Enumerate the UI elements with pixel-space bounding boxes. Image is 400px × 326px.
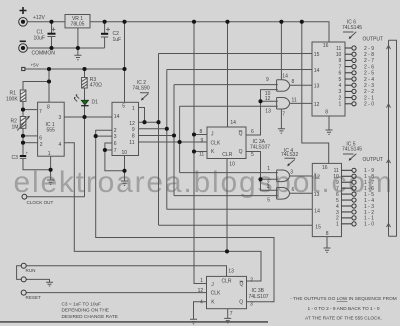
svg-text:CLK: CLK (211, 141, 221, 147)
wire RESET line to IC3b CLK pin12 (26, 292, 206, 294)
junction C2 on +5V rail (103, 20, 107, 24)
IC1 555 box (38, 102, 65, 156)
svg-text:1uF: 1uF (113, 37, 122, 43)
regulator VR1 box (65, 15, 90, 28)
svg-text:555: 555 (47, 128, 56, 134)
svg-text:RUN: RUN (26, 268, 36, 273)
wire gate4 output to IC5 pin13 (290, 192, 313, 194)
svg-text:8: 8 (200, 129, 203, 135)
svg-text:2: 2 (250, 277, 253, 283)
wire RUN ground stub line (26, 279, 49, 282)
junction bus A at IC2 pin12 (156, 120, 160, 124)
svg-text:CLR: CLR (222, 278, 232, 284)
svg-text:6: 6 (292, 187, 295, 193)
wire VR1 ground stub (77, 28, 79, 55)
svg-text:16: 16 (323, 43, 329, 49)
connector COMMON center pin (21, 46, 25, 50)
svg-text:2 - 7: 2 - 7 (364, 58, 374, 64)
wire IC3a Q net to gate3 input2 and gate4 input4 (246, 152, 278, 191)
svg-text:13: 13 (265, 109, 271, 115)
svg-text:Q: Q (239, 299, 243, 305)
svg-text:1: 1 (200, 278, 203, 284)
svg-text:8: 8 (132, 134, 135, 140)
svg-text:15: 15 (315, 224, 321, 230)
svg-text:16: 16 (322, 165, 328, 171)
svg-text:2 - 0: 2 - 0 (364, 102, 374, 108)
junction R1 R2 555 pin7 (21, 108, 25, 112)
svg-text:+12V: +12V (33, 15, 45, 21)
wire IC3a J stub (194, 134, 207, 136)
junction bus D at IC2 pin11 (178, 140, 182, 144)
svg-text:DESIRED CHANGE RATE: DESIRED CHANGE RATE (62, 314, 118, 320)
svg-text:8: 8 (325, 110, 328, 116)
svg-text:C3: C3 (12, 155, 19, 161)
junction IC3a K tie (192, 149, 196, 153)
sequence arrowhead at 2-0 (387, 104, 391, 108)
wire R1 top branch (23, 82, 49, 91)
svg-text:14: 14 (314, 68, 320, 74)
svg-text:12: 12 (314, 102, 320, 108)
svg-text:5: 5 (122, 103, 125, 109)
terminal RUN (21, 263, 26, 268)
svg-text:13: 13 (314, 84, 320, 90)
svg-text:100K: 100K (6, 97, 18, 103)
svg-text:12: 12 (314, 175, 320, 181)
junction IC2 pins6-7 (103, 148, 107, 152)
svg-text:9: 9 (266, 77, 269, 83)
svg-text:74LS145: 74LS145 (342, 25, 362, 31)
wire IC6 gnd stub (328, 116, 330, 130)
or-gate IC4c pins 1,2,3 (277, 170, 290, 182)
svg-text:- THE OUTPUTS GO LOW IN SEQUEN: - THE OUTPUTS GO LOW IN SEQUENCE FROM (290, 296, 397, 302)
label IC5 outputs (364, 168, 374, 228)
ground below IC6 (326, 130, 333, 134)
svg-text:7: 7 (282, 112, 285, 118)
svg-text:2 - 9: 2 - 9 (364, 46, 374, 52)
ground below IC2 (121, 181, 128, 185)
junction IC2 pins2-3 (94, 134, 98, 138)
wire 555 pin4 to CLR net (65, 143, 262, 281)
wire IC2 pin11 row to IC3a CLK (139, 141, 208, 143)
svg-text:1: 1 (132, 106, 135, 112)
svg-text:78L05: 78L05 (71, 22, 85, 28)
svg-text:OUTPUT: OUTPUT (363, 37, 384, 43)
connector +12V center pin (21, 20, 25, 24)
wire bus A to IC6 pin15 (159, 53, 313, 55)
wire bus D vertical (179, 106, 181, 172)
svg-text:2: 2 (339, 95, 342, 101)
svg-text:7: 7 (114, 148, 117, 154)
wire gate2 output to IC6 pin12 (290, 102, 312, 104)
wire C3 bottom to 555 pin1 node (23, 159, 51, 170)
svg-text:Q: Q (239, 131, 243, 137)
LED D1 (74, 94, 89, 106)
svg-text:3: 3 (114, 134, 117, 140)
ground below VR1 (74, 55, 81, 59)
svg-text:6: 6 (251, 129, 254, 135)
junction LED clock node (82, 115, 86, 119)
capacitor C2 (101, 33, 108, 35)
svg-text:11: 11 (129, 140, 134, 146)
wire bus B to IC5 pin14 (167, 208, 312, 210)
label IC6 outputs (364, 46, 374, 108)
svg-text:2 - 4: 2 - 4 (364, 77, 374, 83)
wire 555 pin1 ground stub (50, 156, 52, 180)
junction IC2 pin1 pin12 (142, 120, 146, 124)
wire IC3a pin10 CLR stub down (226, 159, 228, 252)
svg-text:2 - 8: 2 - 8 (364, 52, 374, 58)
or-gate IC4b pins 12,13,11 (277, 98, 290, 110)
wire IC4 vcc pin14 stub (280, 22, 282, 80)
svg-text:1: 1 (48, 151, 51, 157)
wire bus B vertical (166, 70, 168, 210)
capacitor C3 (20, 155, 26, 157)
capacitor C1 (48, 33, 56, 35)
wire +5V feeder to IC3a pin14 (227, 22, 229, 127)
svg-text:5: 5 (251, 152, 254, 158)
svg-text:CLR: CLR (222, 152, 232, 158)
IC3a 74LS107 box (207, 127, 246, 159)
wire +12V rail from connector to VR1 (28, 21, 66, 23)
svg-text:470Ω: 470Ω (90, 83, 102, 89)
wire +5V terminal rail (25, 68, 125, 70)
svg-text:12: 12 (129, 121, 135, 127)
wire IC2 pin7 to ground node (105, 150, 125, 171)
IC2 label leader arrow (140, 93, 149, 99)
svg-text:13: 13 (228, 269, 234, 275)
ground at RUN switch (46, 282, 53, 286)
junction 555 pin2 node (21, 141, 25, 145)
svg-text:+5V: +5V (31, 63, 40, 68)
junction gate3 input2 node (258, 177, 262, 181)
junction bus B at IC2 pin9 (165, 127, 169, 131)
svg-text:7: 7 (39, 109, 42, 115)
svg-text:4: 4 (267, 185, 270, 191)
overline IC3b Qbar (240, 280, 244, 282)
junction IC4 vcc on +5V rail (279, 20, 283, 24)
or-gate IC4a pins 9,10,8 (277, 80, 290, 92)
junction C1 on ground rail (49, 46, 53, 50)
wire IC2 pin2 jog (96, 130, 112, 136)
wire clock out line (27, 196, 85, 198)
wire right sequence return line (389, 40, 397, 236)
ground below IC5 (324, 248, 331, 252)
svg-text:5: 5 (339, 77, 342, 83)
svg-text:Q: Q (239, 149, 243, 155)
wire bus D to gate3 input1 (180, 172, 278, 174)
svg-text:74LS107: 74LS107 (249, 294, 269, 300)
connector +12V (19, 18, 28, 27)
wire IC2 pin1 jog (139, 108, 145, 123)
sequence arrowhead at 1-9 (387, 160, 391, 164)
wire IC3b K to ground (194, 302, 207, 320)
svg-text:DEPENDING ON THE: DEPENDING ON THE (62, 308, 109, 314)
minus symbol of COMMON terminal (20, 40, 26, 42)
wire gate1 output to IC6 pin13 (290, 84, 312, 86)
junction C1 on +12V rail (49, 20, 53, 24)
wire IC3a K stub (194, 151, 207, 153)
svg-text:10: 10 (122, 150, 128, 156)
wire bus C to gate1 input9 (174, 84, 278, 86)
junction IC5 vcc on +5V rail (300, 20, 304, 24)
svg-text:10: 10 (229, 162, 235, 168)
wire R1 to R2 chain left column (22, 101, 24, 116)
connector COMMON (19, 44, 28, 53)
svg-text:15: 15 (314, 52, 320, 58)
svg-text:9: 9 (201, 138, 204, 144)
ground below IC1 555 (47, 180, 54, 184)
svg-text:3: 3 (290, 170, 293, 176)
svg-text:2: 2 (40, 142, 43, 148)
svg-text:14: 14 (282, 73, 288, 79)
svg-text:CLOCK OUT: CLOCK OUT (27, 200, 54, 205)
wire RUN switch bracket (17, 266, 22, 280)
overline IC3a Qbar (239, 130, 243, 132)
wire RUN line to IC3b CLR pin13 (26, 266, 226, 277)
wire R1 and 555 pin8 feeder (48, 69, 50, 102)
junction VR1 gnd on ground rail (76, 46, 80, 50)
junction gate2 input12 node (258, 99, 262, 103)
wire R2 bottom to C3 (22, 128, 24, 155)
svg-text:2 - 1: 2 - 1 (364, 95, 374, 101)
svg-text:11: 11 (292, 98, 297, 104)
junction C3 at 555 pin1 (49, 168, 53, 172)
svg-text:8: 8 (47, 105, 50, 111)
IC5 output pin circles (342, 168, 357, 226)
junction R1 branch node (47, 79, 51, 83)
wire IC3b pin7 gnd stub (227, 309, 229, 319)
svg-text:+: + (26, 151, 29, 156)
IC5 74LS145 box (312, 163, 341, 236)
junction IC2 pin10 ground node (122, 169, 126, 173)
svg-text:COMMON: COMMON (32, 51, 56, 57)
svg-text:RESET: RESET (26, 295, 42, 300)
svg-text:11: 11 (199, 151, 204, 157)
svg-text:4: 4 (339, 83, 342, 89)
junction CLR net node (225, 249, 229, 253)
svg-text:13: 13 (314, 192, 320, 198)
plus symbol of +12V terminal (20, 7, 27, 14)
svg-text:7: 7 (339, 64, 342, 70)
wire IC4 gnd pin7 stub (280, 109, 282, 128)
svg-text:12: 12 (265, 96, 271, 102)
svg-text:AT THE RATE OF THE 555 CLOCK.: AT THE RATE OF THE 555 CLOCK. (305, 315, 382, 321)
junction R3 on +5V terminal rail (82, 67, 86, 71)
svg-text:74LS145: 74LS145 (342, 147, 362, 153)
ground IC4 pin7 (278, 129, 285, 133)
wire bus A vertical (158, 54, 160, 226)
svg-text:1: 1 (339, 102, 342, 108)
svg-text:2 - 3: 2 - 3 (364, 83, 374, 89)
ground IC3b K pin4 (190, 319, 197, 323)
wire IC2 pin9 output row (139, 128, 167, 130)
wire C2 top stub (104, 22, 106, 34)
junction IC2 pin5 feeder (122, 67, 126, 71)
IC4 label leader arrow (285, 158, 296, 165)
wire bus C to gate4 input5 (174, 195, 278, 197)
IC5 label leader arrow (343, 154, 356, 160)
svg-text:9: 9 (132, 127, 135, 133)
svg-text:8: 8 (292, 79, 295, 85)
svg-text:14: 14 (230, 120, 236, 126)
svg-text:3: 3 (250, 302, 253, 308)
wire +5V feeder to IC2 pin5 (124, 22, 126, 103)
resistor R1 (20, 90, 26, 101)
svg-text:8: 8 (326, 231, 329, 237)
junction R1 feeder on +5V terminal rail (47, 67, 51, 71)
svg-text:74LS107: 74LS107 (250, 145, 270, 151)
wire C1 top stub (51, 22, 53, 33)
svg-text:1: 1 (267, 166, 270, 172)
terminal CLOCK OUT (22, 194, 27, 199)
svg-text:6: 6 (339, 71, 342, 77)
wire IC2 pin12 output row (139, 121, 159, 123)
wire COMMON ground rail (28, 47, 105, 49)
svg-text:2 - 2: 2 - 2 (364, 89, 374, 95)
IC6 output pin circles (345, 46, 356, 106)
svg-text:1 - 0: 1 - 0 (364, 222, 374, 228)
IC2 74LS90 box (112, 102, 139, 155)
wire 555 pin3 output to IC2 pin14 (65, 116, 113, 118)
wire C1 bottom stub (51, 37, 53, 48)
svg-text:4: 4 (200, 300, 203, 306)
label IC6 right pins (336, 46, 342, 108)
svg-text:7: 7 (230, 311, 233, 317)
wire bus C vertical (173, 85, 175, 196)
svg-text:D1: D1 (92, 100, 99, 106)
or-gate IC4d pins 4,5,6 (277, 188, 290, 200)
svg-text:1: 1 (336, 222, 339, 228)
sequence arrowhead at 1-0 (387, 224, 391, 228)
junction IC3a J tie (192, 132, 196, 136)
sequence arrowhead at 2-9 (387, 46, 391, 50)
junction IC2 feeder on +5V rail (122, 20, 126, 24)
wire IC3a Qbar net to gate1 input10 and gate2 input12 (246, 90, 278, 135)
svg-text:OUTPUT: OUTPUT (363, 157, 384, 163)
svg-text:2 - 5: 2 - 5 (364, 71, 374, 77)
svg-text:74LS90: 74LS90 (132, 85, 149, 91)
svg-text:2 - 6: 2 - 6 (364, 64, 374, 70)
wire bus B to IC6 pin14 (167, 69, 312, 71)
svg-text:9: 9 (339, 58, 342, 64)
wire bus D to gate2 input13 (180, 105, 278, 107)
junction JK feeder on +5V rail (192, 20, 196, 24)
wire 555 pin6 line (23, 135, 38, 137)
wire +5V rail from VR1 output to IC6 pin16 (90, 22, 329, 42)
svg-text:C3 = 1uF TO 10uF: C3 = 1uF TO 10uF (62, 301, 102, 307)
svg-text:3: 3 (339, 89, 342, 95)
svg-text:Q: Q (240, 282, 244, 288)
wire IC2 pin8 output row (139, 135, 175, 137)
svg-text:6: 6 (39, 135, 42, 141)
+5V output terminal square (22, 67, 25, 70)
wire LED cathode down to clock node (84, 106, 86, 197)
wire IC5 gnd stub (326, 237, 328, 248)
svg-text:4: 4 (59, 142, 62, 148)
wire right sequence arrow line left (388, 40, 390, 236)
svg-text:3: 3 (59, 115, 62, 121)
label IC5 right pins (333, 168, 339, 228)
wire IC2 pin6 jog (105, 143, 112, 150)
wire 555 pin2 line (23, 142, 38, 144)
svg-text:1M: 1M (12, 125, 19, 131)
junction bus C at IC2 pin8 (172, 133, 176, 137)
junction 555 pin6 node (21, 134, 25, 138)
IC6 74LS145 box (312, 42, 345, 116)
svg-text:12: 12 (198, 288, 204, 294)
svg-text:1 - 0 TO 2 - 9 AND BACK TO 1 -: 1 - 0 TO 2 - 9 AND BACK TO 1 - 0 (308, 306, 380, 312)
terminal RUN ground side (21, 277, 26, 282)
svg-text:5: 5 (267, 197, 270, 203)
wire bus A to IC5 pin15 (159, 224, 313, 226)
wire R3 to LED D1 (84, 88, 86, 100)
svg-text:11: 11 (336, 46, 341, 52)
svg-text:14: 14 (114, 114, 120, 120)
svg-text:10uF: 10uF (34, 36, 45, 42)
terminal RESET (21, 290, 26, 295)
wire 555 pin7 line (23, 109, 38, 111)
svg-text:74LS32: 74LS32 (281, 152, 298, 158)
svg-text:CLK: CLK (211, 290, 221, 296)
ground IC3b pin7 (224, 318, 231, 322)
svg-text:14: 14 (314, 208, 320, 214)
scan artifact bottom dark band (0, 321, 268, 323)
svg-text:6: 6 (114, 141, 117, 147)
resistor R3 (82, 78, 88, 89)
svg-text:10: 10 (336, 52, 342, 58)
wire IC2 pin10 stub to ground (124, 156, 126, 182)
wire IC2 pin3 to IC3b Q net (96, 136, 274, 302)
wire IC5 pin16 feeder (302, 22, 329, 164)
wire +5V long feeder to IC3a J K and IC3b J (194, 22, 207, 284)
junction IC3a vcc on +5V rail (225, 20, 229, 24)
wire gate2 input12 stub (261, 100, 278, 102)
resistor R2 trimmer (17, 116, 30, 131)
wire gate3 input2 stub (261, 178, 278, 180)
wire gate3 output to IC5 pin12 (290, 175, 313, 177)
wire R3 top stub (84, 69, 86, 78)
wire C2 bottom stub (104, 37, 106, 48)
IC3b 74LS107 box (207, 276, 247, 308)
IC6 label leader arrow (343, 32, 356, 38)
